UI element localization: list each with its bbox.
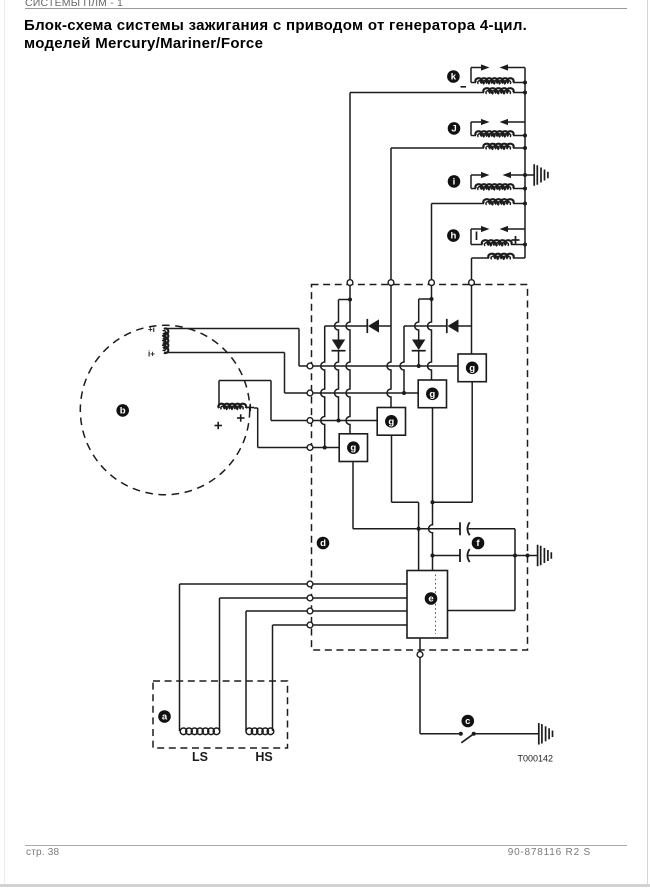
terminal: coil I input — [429, 280, 435, 286]
terminal: LS winding lead 1 — [307, 581, 313, 587]
junction: capacitor common — [513, 554, 517, 558]
wire: terminal to E input 1 — [313, 583, 407, 585]
wire: ignition coil supply bus — [524, 68, 526, 259]
mark + below trigger winding 1 — [237, 414, 245, 421]
wire: feed from D3 to row 4 — [321, 326, 325, 448]
svg-text:c: c — [465, 716, 471, 727]
terminal: HS winding lead 1 — [307, 608, 313, 614]
terminal: LS winding lead 2 — [307, 595, 313, 601]
junction on wire A — [348, 298, 352, 302]
terminal: coil H input — [469, 280, 475, 286]
wire: HS lead 1 — [246, 611, 307, 729]
terminal: trigger winding B — [307, 445, 313, 451]
wire: terminal to stop switch — [420, 657, 461, 733]
mark + at trigger winding right — [247, 404, 255, 411]
label f — [472, 537, 485, 550]
wire row 1 to SCR g4 — [313, 365, 458, 367]
terminal: coil K input — [347, 280, 353, 286]
label LS — [192, 750, 208, 764]
SCR box g3 — [418, 380, 446, 408]
label e — [425, 592, 438, 605]
wire D: terminal H to SCR box g4 — [471, 286, 473, 355]
winding LS — [180, 728, 220, 735]
junction: g1/g2 node — [417, 527, 421, 531]
terminal: stop switch — [417, 652, 423, 658]
mark +i at stator winding top — [148, 325, 155, 334]
capacitor f1 — [460, 522, 515, 535]
svg-text:g: g — [429, 389, 435, 400]
wire: stator top to terminal — [164, 329, 307, 367]
SCR box g4 — [458, 354, 486, 382]
terminal: trigger winding A — [307, 418, 313, 424]
label d — [317, 537, 330, 550]
stator winding (vertical coil) — [163, 328, 169, 353]
wire: g3 output to trigger box — [429, 408, 433, 571]
capacitor f2 — [433, 549, 538, 562]
ground at stop switch — [539, 723, 553, 745]
wire: coil J primary to terminal — [390, 148, 392, 280]
wire: capacitor common — [514, 529, 516, 611]
junction on wire C — [430, 297, 434, 301]
svg-text:e: e — [428, 594, 433, 605]
terminal: stator winding bottom — [307, 390, 313, 396]
ground at capacitors F — [538, 545, 552, 567]
junction: D2 to row 1 — [417, 364, 421, 368]
mark + below trigger winding 2 — [215, 422, 223, 429]
header rule — [25, 8, 627, 9]
wire: branch from A to diode D1 — [339, 299, 351, 301]
terminal: HS winding lead 2 — [307, 622, 313, 628]
SCR box g2 — [377, 408, 405, 436]
junction: D1 to row 3 — [337, 419, 341, 423]
label a — [158, 710, 171, 723]
svg-text:g: g — [388, 416, 394, 427]
svg-text:g: g — [350, 443, 356, 454]
footer document number — [508, 847, 591, 858]
label HS — [255, 750, 272, 764]
wire: coil H primary to terminal — [471, 258, 473, 280]
wire: coil I primary to terminal — [431, 204, 433, 280]
svg-text:HS: HS — [255, 750, 272, 764]
label i — [448, 175, 461, 188]
footer page number — [26, 847, 59, 858]
polarity + mark in coil H — [512, 236, 520, 244]
svg-text:i+: i+ — [148, 350, 155, 359]
svg-text:LS: LS — [192, 750, 208, 764]
terminal: coil J input — [388, 280, 394, 286]
terminal: stator winding top — [307, 363, 313, 369]
wire: E to stop-switch terminal — [419, 638, 421, 652]
diode D4 (pointing left) between feed wire and D — [404, 319, 472, 333]
wire C: terminal I to SCR box g3 — [428, 286, 432, 381]
svg-text:h: h — [450, 231, 456, 242]
winding HS — [246, 728, 274, 735]
wire: terminal to E input 4 — [313, 624, 407, 626]
svg-text:J: J — [451, 123, 456, 134]
ignition coil K (cyl.1): spark gap, secondary and primary windings — [350, 64, 527, 94]
page title — [24, 17, 584, 54]
stop switch C (open blade) — [459, 732, 539, 743]
wire: g2 output to trigger box — [392, 435, 419, 570]
junction: ground lead at box edge — [526, 554, 530, 558]
wire row 4 to SCR g1 — [313, 447, 339, 449]
right page border — [647, 0, 648, 884]
footer rule — [25, 845, 627, 846]
wire: feed from D4 to row 2 — [400, 326, 404, 393]
wire: LS lead 1 — [180, 584, 308, 729]
label T000142 — [518, 754, 554, 764]
ignition coil H (cyl.4): spark gap, secondary and primary windings — [471, 226, 527, 259]
SCR box g1 — [339, 434, 367, 462]
junction: g3/g4 node — [431, 500, 435, 504]
wire row 3 to SCR g2 — [313, 420, 377, 422]
bottom grey bar — [0, 884, 650, 888]
trigger module box E — [407, 571, 448, 639]
wire: terminal to E input 3 — [313, 610, 407, 612]
label h — [447, 229, 460, 242]
wire: LS lead 2 — [220, 598, 308, 729]
wire: g4 output to g3 node — [433, 382, 473, 503]
diode D2 (down) — [412, 299, 426, 366]
junction: feed to row 2 — [402, 391, 406, 395]
wire A: terminal K to SCR box g1 — [346, 286, 350, 434]
wire: terminal to E input 2 — [313, 597, 407, 599]
svg-text:+i: +i — [148, 325, 155, 334]
wire: HS lead 2 — [273, 625, 308, 729]
page header (clipped at top) — [25, 0, 123, 9]
wire: branch from C to diode D2 — [419, 298, 432, 300]
label c — [462, 715, 475, 728]
wire: g1 output to capacitor node — [353, 462, 460, 529]
label k — [447, 70, 460, 83]
junction: feed to row 4 — [323, 446, 327, 450]
wire: trigger left to terminal — [219, 381, 307, 421]
ignition coil J (cyl.2): spark gap, secondary and primary windings — [391, 119, 527, 150]
wire: E output to capacitor common — [448, 610, 516, 612]
label J — [448, 122, 461, 135]
svg-text:i: i — [453, 176, 456, 187]
svg-text:b: b — [120, 405, 126, 416]
wire row 2 to SCR g3 — [313, 392, 418, 394]
ignition coil I (cyl.3): spark gap, secondary and primary windings — [432, 172, 535, 206]
svg-text:k: k — [451, 72, 457, 83]
svg-text:a: a — [162, 712, 168, 723]
wire: stator bottom to terminal — [164, 353, 307, 394]
label b — [116, 404, 129, 417]
wire B: terminal J to SCR box g2 — [387, 286, 391, 408]
diode D3 (pointing left) between feed wire and B — [325, 319, 391, 333]
polarity minus mark at coil K — [461, 86, 467, 88]
svg-text:g: g — [469, 363, 475, 374]
left page border — [4, 0, 5, 884]
junction: g3/capacitor f2 node — [431, 554, 435, 558]
diode D1 (down) — [332, 300, 346, 421]
charge coil box A (dashed) — [153, 681, 288, 748]
CDI module box D (dashed) — [312, 285, 528, 651]
ground at ignition coil I — [534, 164, 548, 186]
flywheel B (dashed circle) — [80, 325, 249, 494]
trigger winding (horizontal coil) — [218, 404, 246, 410]
svg-text:d: d — [320, 538, 326, 549]
mark i+ at stator winding bottom — [148, 350, 155, 359]
wire: trigger right to terminal — [254, 408, 307, 448]
wire: coil K primary to terminal — [349, 93, 351, 280]
svg-text:T000142: T000142 — [518, 754, 554, 764]
polarity I mark in coil H — [476, 232, 478, 241]
